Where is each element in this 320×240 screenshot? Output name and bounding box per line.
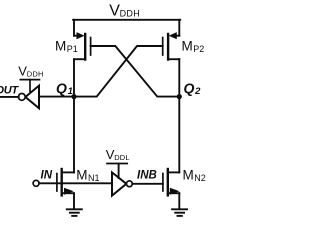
svg-text:2: 2: [194, 86, 201, 97]
wire U2 output INB to MN2 gate: [132, 183, 163, 185]
wire VDDH rail: [73, 19, 180, 21]
ground MN1 source: [67, 193, 82, 216]
svg-text:DDH: DDH: [120, 8, 140, 18]
transistor MP1: [74, 20, 91, 97]
label MN1: [76, 167, 99, 183]
label MN2: [183, 167, 206, 183]
transistor MN2: [163, 169, 180, 195]
node Q2: [177, 94, 182, 99]
wire Q1 to inverter U1 input: [39, 96, 74, 98]
svg-text:Q: Q: [184, 80, 195, 96]
net label V_DDH: [109, 2, 140, 19]
wire cross-couple MP1 gate to Q2: [91, 46, 180, 97]
svg-text:INB: INB: [137, 169, 157, 181]
inverter U2: [112, 172, 132, 195]
svg-text:N1: N1: [88, 173, 100, 183]
label MP1: [55, 38, 78, 54]
wire U1 output to OUT: [0, 96, 19, 98]
label Q1: [56, 80, 73, 97]
node Q1: [71, 94, 76, 99]
svg-text:M: M: [182, 38, 193, 53]
wire Q1 to MN1 drain: [73, 97, 75, 173]
svg-text:IN: IN: [41, 170, 53, 182]
terminal IN: [33, 180, 39, 186]
svg-text:P2: P2: [193, 44, 204, 54]
svg-text:N2: N2: [194, 173, 206, 183]
power VDDH for U1: [18, 64, 43, 92]
svg-text:DDH: DDH: [27, 70, 44, 79]
svg-text:M: M: [76, 167, 87, 182]
label MP2: [182, 38, 205, 54]
transistor MP2: [163, 20, 180, 97]
wire cross-couple Q1 to MP2 gate: [74, 46, 163, 97]
transistor MN1: [57, 169, 74, 195]
ground MN2 source: [172, 193, 187, 216]
svg-text:M: M: [183, 167, 194, 182]
svg-text:Q: Q: [56, 80, 67, 96]
inverter U1: [18, 86, 39, 109]
wire IN to MN1 gate and U2 input: [39, 182, 112, 184]
svg-text:P1: P1: [67, 44, 78, 54]
wire Q2 to MN2 drain: [178, 97, 180, 173]
svg-text:1: 1: [68, 86, 73, 97]
svg-text:M: M: [55, 38, 66, 53]
svg-text:OUT: OUT: [0, 84, 19, 96]
label Q2: [184, 80, 202, 97]
power VDDL for U2: [106, 147, 130, 178]
svg-text:DDL: DDL: [114, 153, 130, 162]
